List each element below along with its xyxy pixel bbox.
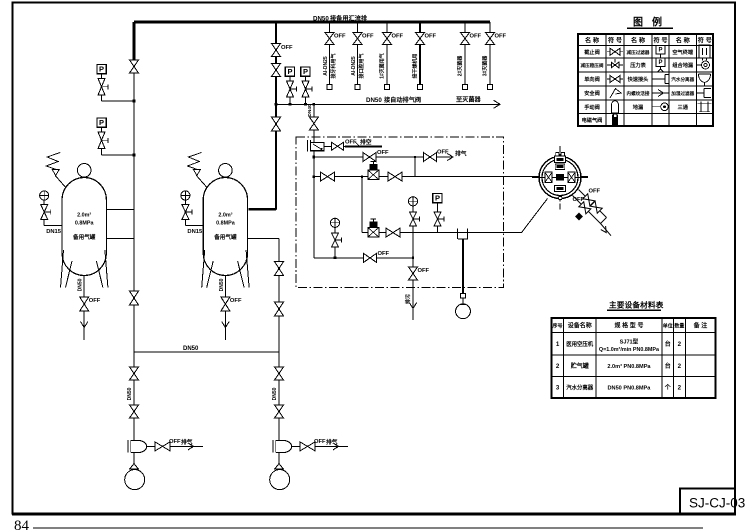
svg-text:符 号: 符 号 — [608, 37, 622, 45]
svg-text:OFF: OFF — [495, 34, 507, 40]
svg-text:接备用汇流排: 接备用汇流排 — [330, 15, 368, 23]
svg-text:OFF: OFF — [314, 439, 326, 445]
svg-text:数量: 数量 — [674, 323, 684, 330]
svg-text:2: 2 — [556, 363, 560, 370]
svg-text:至灭菌器: 至灭菌器 — [456, 96, 482, 104]
svg-text:名 称: 名 称 — [631, 37, 646, 45]
svg-text:单位: 单位 — [663, 323, 673, 330]
svg-text:P: P — [435, 194, 440, 203]
svg-text:2.0m³ PN0.8MPa: 2.0m³ PN0.8MPa — [607, 363, 651, 370]
svg-text:手动阀: 手动阀 — [584, 103, 600, 111]
svg-text:P: P — [658, 48, 662, 54]
svg-text:0.8MPa: 0.8MPa — [216, 221, 236, 227]
svg-text:排污: 排污 — [405, 294, 412, 304]
svg-text:DN50: DN50 — [127, 387, 133, 400]
svg-text:备用气罐: 备用气罐 — [72, 233, 96, 241]
svg-text:贮气罐: 贮气罐 — [570, 362, 589, 370]
svg-text:OFF: OFF — [425, 34, 437, 40]
svg-text:汽水分离器: 汽水分离器 — [566, 383, 594, 391]
svg-text:0.8MPa: 0.8MPa — [75, 221, 95, 227]
svg-text:序号: 序号 — [552, 323, 563, 330]
svg-text:快速接头: 快速接头 — [628, 75, 650, 83]
svg-text:OFF: OFF — [378, 251, 390, 257]
svg-text:P: P — [287, 67, 292, 76]
svg-text:84: 84 — [14, 518, 30, 530]
svg-text:组合地漏: 组合地漏 — [672, 61, 693, 69]
svg-text:电磁气阀: 电磁气阀 — [582, 116, 603, 124]
svg-text:2#灭菌器: 2#灭菌器 — [457, 55, 464, 77]
svg-text:OFF: OFF — [334, 34, 346, 40]
svg-text:2: 2 — [678, 341, 682, 348]
svg-text:OFF: OFF — [345, 140, 357, 146]
svg-text:1: 1 — [556, 341, 560, 348]
svg-text:DN50: DN50 — [219, 278, 225, 291]
svg-text:DN50: DN50 — [78, 278, 84, 291]
svg-text:DN50: DN50 — [313, 16, 329, 23]
svg-text:图: 图 — [633, 17, 643, 29]
svg-text:例: 例 — [652, 16, 662, 29]
svg-text:台: 台 — [665, 362, 671, 370]
svg-text:名 称: 名 称 — [585, 37, 600, 45]
svg-text:空气终端: 空气终端 — [672, 48, 694, 56]
svg-text:3#灭菌器: 3#灭菌器 — [482, 55, 489, 77]
svg-text:接干燥机用: 接干燥机用 — [412, 53, 419, 79]
svg-text:OFF: OFF — [89, 298, 101, 304]
svg-text:汽水分离器: 汽水分离器 — [671, 76, 694, 83]
svg-text:OFF: OFF — [589, 189, 601, 195]
svg-text:OFF: OFF — [169, 439, 181, 445]
svg-text:符 号: 符 号 — [653, 37, 667, 45]
svg-text:AI-DN25: AI-DN25 — [351, 56, 357, 76]
svg-text:接自动排气阀: 接自动排气阀 — [384, 96, 421, 104]
svg-text:SJ71型: SJ71型 — [620, 338, 639, 346]
svg-text:DN40: DN40 — [307, 104, 313, 117]
svg-text:排空: 排空 — [360, 138, 372, 146]
svg-text:OFF: OFF — [362, 34, 374, 40]
svg-text:P: P — [658, 60, 662, 66]
svg-text:2: 2 — [678, 363, 682, 370]
svg-text:Q=1.0m³/min PN0.8MPa: Q=1.0m³/min PN0.8MPa — [599, 347, 660, 353]
svg-text:内螺纹活接: 内螺纹活接 — [627, 90, 650, 97]
svg-text:单向阀: 单向阀 — [584, 75, 600, 83]
svg-text:压力表: 压力表 — [630, 61, 646, 69]
svg-text:P: P — [99, 118, 104, 127]
svg-text:DN15: DN15 — [187, 229, 203, 235]
svg-text:2.0m³: 2.0m³ — [218, 213, 232, 219]
svg-text:规 格 型 号: 规 格 型 号 — [614, 322, 643, 330]
svg-text:OFF: OFF — [377, 150, 389, 156]
svg-text:OFF: OFF — [470, 34, 482, 40]
svg-text:2: 2 — [678, 384, 682, 391]
svg-text:个: 个 — [664, 383, 672, 391]
svg-text:DN50: DN50 — [366, 97, 382, 104]
svg-text:加湿过滤器: 加湿过滤器 — [670, 90, 694, 97]
svg-text:减压过滤器: 减压过滤器 — [627, 49, 650, 56]
svg-text:OFF: OFF — [281, 45, 293, 51]
svg-text:P: P — [99, 65, 104, 74]
svg-text:P: P — [303, 67, 308, 76]
svg-text:备用气罐: 备用气罐 — [213, 233, 237, 241]
svg-text:排气: 排气 — [455, 150, 467, 158]
svg-text:减压稳压阀: 减压稳压阀 — [581, 62, 604, 69]
svg-text:安全阀: 安全阀 — [584, 89, 600, 97]
svg-text:3: 3 — [556, 384, 560, 391]
svg-text:备 注: 备 注 — [693, 322, 708, 330]
svg-text:OFF: OFF — [392, 34, 404, 40]
svg-text:1#灭菌用气: 1#灭菌用气 — [379, 53, 386, 79]
svg-text:2.0m³: 2.0m³ — [77, 213, 91, 219]
svg-text:三通: 三通 — [678, 103, 689, 111]
svg-text:AI-DN25: AI-DN25 — [323, 56, 329, 76]
svg-text:OFF: OFF — [437, 150, 449, 156]
svg-text:DN50: DN50 — [272, 387, 278, 400]
svg-text:OFF: OFF — [573, 197, 585, 203]
svg-text:地漏: 地漏 — [633, 103, 643, 111]
svg-text:台: 台 — [665, 340, 671, 348]
svg-text:DN15: DN15 — [46, 229, 62, 235]
svg-text:OFF: OFF — [230, 298, 242, 304]
svg-text:OFF: OFF — [418, 268, 430, 274]
svg-text:DN50 PN0.8MPa: DN50 PN0.8MPa — [607, 385, 651, 391]
svg-text:设备名称: 设备名称 — [568, 322, 592, 330]
svg-text:医用空压机: 医用空压机 — [566, 340, 594, 348]
svg-text:接口腔用气: 接口腔用气 — [358, 53, 365, 79]
svg-text:主要设备材料表: 主要设备材料表 — [609, 300, 664, 310]
svg-text:接牙科用气: 接牙科用气 — [330, 53, 337, 79]
svg-text:名 称: 名 称 — [676, 37, 691, 45]
svg-text:DN50: DN50 — [183, 346, 199, 352]
svg-text:SJ-CJ-03: SJ-CJ-03 — [689, 496, 745, 511]
svg-text:截止阀: 截止阀 — [584, 48, 600, 56]
svg-text:符 号: 符 号 — [698, 37, 712, 45]
